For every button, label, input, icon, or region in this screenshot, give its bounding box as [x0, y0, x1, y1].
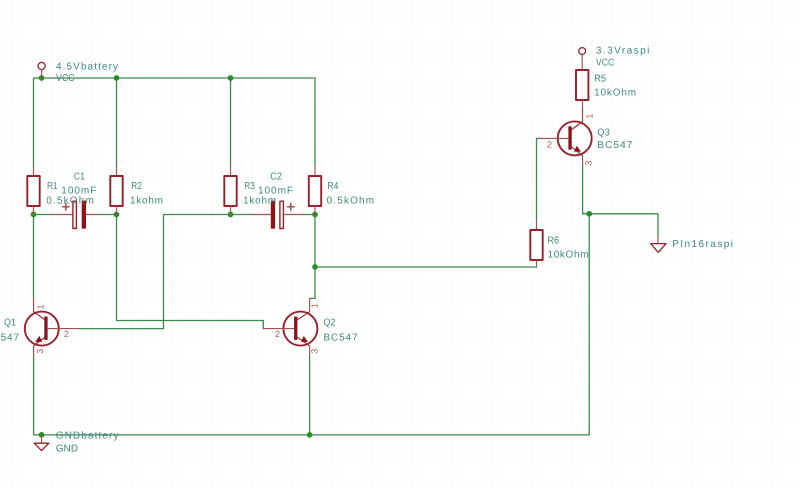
- svg-text:VCC: VCC: [56, 73, 75, 84]
- svg-text:Q2: Q2: [324, 318, 336, 329]
- junction R2 bottom: [114, 212, 120, 218]
- wire R1 bottom to C1 left: [34, 214, 54, 216]
- wire junction to Pin16 symbol: [589, 214, 658, 235]
- resistor R4 0.5kOhm: [309, 167, 321, 215]
- svg-text:C2: C2: [270, 171, 282, 182]
- svg-text:R1: R1: [47, 181, 58, 192]
- svg-text:1kohm: 1kohm: [130, 196, 163, 207]
- transistor Q2 BC547 (base left): [263, 298, 317, 356]
- svg-text:3: 3: [309, 349, 319, 354]
- svg-text:R3: R3: [244, 181, 255, 192]
- svg-text:R5: R5: [594, 74, 606, 85]
- pin symbol PIn16raspi: [651, 235, 667, 252]
- svg-text:1: 1: [584, 114, 594, 119]
- resistor R6 10kOhm: [530, 220, 542, 267]
- svg-text:R2: R2: [131, 181, 142, 192]
- svg-text:GND: GND: [56, 444, 78, 455]
- wire C1 right to R2 bottom: [97, 214, 117, 216]
- junction R1 bottom: [31, 212, 37, 218]
- junction top rail R2: [114, 75, 120, 81]
- wire rail to R1 top: [33, 78, 35, 167]
- svg-text:4.5Vbattery: 4.5Vbattery: [56, 62, 118, 73]
- capacitor C1 100mF polarized: [54, 201, 97, 229]
- svg-text:10kOhm: 10kOhm: [548, 249, 589, 260]
- svg-text:3: 3: [583, 161, 593, 166]
- power symbol 4.5Vbattery VCC: [38, 62, 45, 78]
- wire R3 bottom to C2 left: [231, 214, 251, 216]
- junction top rail R3: [228, 75, 234, 81]
- ground GNDbattery: [34, 435, 49, 451]
- wire rail to R2 top: [116, 78, 118, 167]
- junction R3 bottom: [228, 212, 234, 218]
- wire node to R6 bottom: [315, 266, 537, 268]
- wire R6 top to Q3 base: [537, 138, 540, 220]
- svg-text:0.5kOhm: 0.5kOhm: [46, 196, 94, 207]
- svg-text:R6: R6: [548, 235, 560, 246]
- svg-text:3.3Vraspi: 3.3Vraspi: [596, 46, 649, 57]
- junction GND: [39, 432, 45, 438]
- svg-text:2: 2: [547, 139, 552, 149]
- wire R4 bottom to Q2 collector: [310, 215, 315, 299]
- svg-text:BC547: BC547: [0, 333, 19, 344]
- power symbol 3.3Vraspi VCC: [579, 48, 586, 70]
- wire R3 bottom to Q1 base: [78, 215, 230, 329]
- junction R4 bottom: [312, 212, 318, 218]
- svg-text:2: 2: [64, 329, 69, 339]
- resistor R3 1kohm: [224, 167, 236, 215]
- wire rail to R3 top: [230, 78, 232, 167]
- junction Q3 emitter node: [586, 211, 592, 217]
- svg-text:1: 1: [310, 303, 320, 308]
- transistor Q3 BC547 (base left): [538, 108, 592, 166]
- svg-text:0.5kOhm: 0.5kOhm: [327, 196, 375, 207]
- svg-text:2: 2: [275, 329, 280, 339]
- svg-text:GNDbattery: GNDbattery: [56, 430, 119, 441]
- junction top rail power: [39, 75, 45, 81]
- svg-text:C1: C1: [74, 171, 86, 182]
- wire C2 right to R4 bottom: [304, 214, 316, 216]
- svg-text:BC547: BC547: [597, 140, 632, 151]
- resistor R1 0.5kOhm: [27, 167, 39, 215]
- svg-text:1kohm: 1kohm: [243, 196, 276, 207]
- wire Q2 emitter down: [309, 357, 311, 435]
- wire bottom rail GND: [34, 434, 590, 436]
- svg-text:Q1: Q1: [4, 318, 16, 329]
- svg-text:VCC: VCC: [596, 58, 614, 69]
- transistor Q1 BC547 (mirrored, base right): [25, 299, 79, 357]
- capacitor C2 100mF polarized: [251, 201, 304, 229]
- resistor R5 10kOhm: [576, 70, 588, 122]
- junction Q2 collector node: [312, 264, 318, 270]
- wire rail to R4 top: [314, 78, 316, 167]
- svg-text:1: 1: [35, 304, 45, 309]
- svg-text:R4: R4: [327, 181, 338, 192]
- svg-text:Q3: Q3: [597, 128, 610, 139]
- wire Q1 emitter down: [33, 357, 35, 435]
- wire top rail VCC battery: [34, 77, 316, 79]
- wire Q3 emitter to junction: [583, 166, 590, 213]
- resistor R2 1kohm: [110, 167, 122, 215]
- svg-text:BC547: BC547: [324, 333, 358, 344]
- wire R1 bottom to Q1 collector: [33, 215, 35, 299]
- svg-text:PIn16raspi: PIn16raspi: [672, 239, 733, 250]
- junction Q2 emitter bottom: [307, 432, 313, 438]
- wire R2 bottom to Q2 base: [117, 215, 264, 329]
- wire junction down to bottom rail: [588, 214, 590, 435]
- svg-text:10kOhm: 10kOhm: [594, 88, 636, 99]
- svg-text:3: 3: [35, 349, 45, 354]
